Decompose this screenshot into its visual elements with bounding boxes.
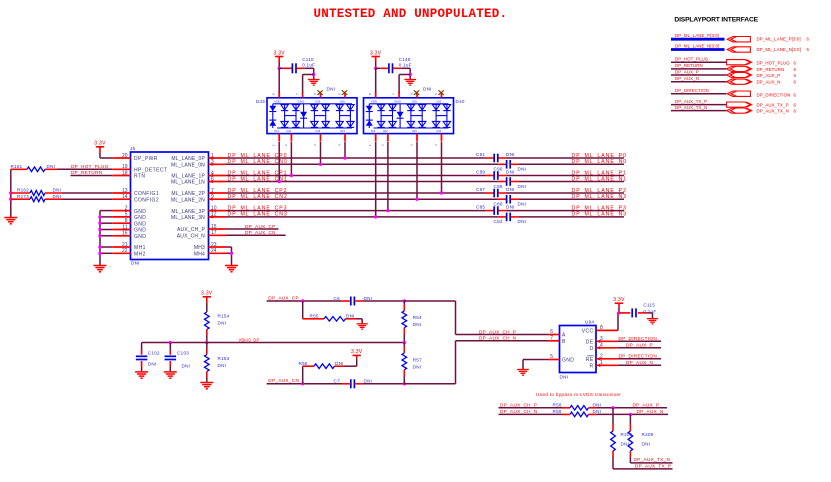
svg-text:IO5: IO5: [316, 99, 321, 103]
svg-text:B: B: [562, 339, 566, 345]
svg-text:D40: D40: [456, 99, 465, 104]
svg-text:DNI: DNI: [518, 167, 527, 172]
svg-text:DP_AUX_TX_P: DP_AUX_TX_P: [635, 463, 671, 468]
svg-text:DP_RETURN: DP_RETURN: [675, 63, 703, 68]
svg-text:DP_AUX_P: DP_AUX_P: [675, 69, 699, 74]
svg-text:C90: C90: [494, 167, 503, 172]
svg-text:DP_DIRECTION: DP_DIRECTION: [619, 354, 658, 359]
svg-text:IO5: IO5: [412, 99, 417, 103]
svg-text:DP_AUX_P: DP_AUX_P: [633, 403, 660, 408]
svg-text:DP_ML_LANE_N[3:0]: DP_ML_LANE_N[3:0]: [675, 44, 719, 49]
svg-text:VCC: VCC: [582, 329, 594, 335]
svg-text:DNI: DNI: [182, 363, 191, 368]
svg-text:VBIAS_DP: VBIAS_DP: [239, 338, 260, 343]
svg-text:C103: C103: [177, 350, 189, 355]
svg-text:R58: R58: [553, 403, 562, 408]
svg-text:20: 20: [122, 153, 128, 159]
svg-text:DNI: DNI: [218, 363, 227, 368]
svg-text:DP_ML_LANE_CP2: DP_ML_LANE_CP2: [228, 188, 288, 194]
svg-text:DNI: DNI: [506, 152, 515, 157]
svg-text:DP_AUX_N: DP_AUX_N: [637, 409, 664, 414]
svg-text:DP_AUX_CP: DP_AUX_CP: [245, 224, 276, 229]
svg-text:DP_ML_LANE_P[3:0]: DP_ML_LANE_P[3:0]: [675, 33, 719, 38]
svg-text:14: 14: [122, 194, 128, 200]
svg-text:DE: DE: [586, 340, 594, 346]
svg-text:AUX_CH_N: AUX_CH_N: [177, 234, 205, 240]
svg-text:DNI: DNI: [642, 441, 651, 446]
svg-text:DP_ML_LANE_P0: DP_ML_LANE_P0: [572, 153, 627, 159]
svg-text:MH4: MH4: [194, 252, 205, 258]
svg-text:U94: U94: [585, 320, 594, 325]
svg-text:R208: R208: [642, 432, 654, 437]
svg-text:DP_AUX_CN: DP_AUX_CN: [245, 230, 276, 235]
svg-text:R59: R59: [553, 409, 562, 414]
svg-text:GND: GND: [562, 358, 574, 364]
svg-text:GND: GND: [394, 99, 402, 103]
svg-text:D43: D43: [256, 99, 265, 104]
svg-text:DP_AUX_TX_P: DP_AUX_TX_P: [675, 99, 707, 104]
svg-text:R57: R57: [413, 358, 422, 363]
svg-text:5: 5: [125, 212, 128, 218]
svg-text:ML_LANE_3P: ML_LANE_3P: [171, 209, 205, 215]
svg-text:IO4: IO4: [340, 129, 345, 133]
svg-text:8: 8: [600, 325, 603, 331]
svg-text:DNI: DNI: [346, 313, 355, 318]
svg-text:R154: R154: [218, 314, 230, 319]
svg-text:18: 18: [122, 170, 128, 176]
svg-text:DNI: DNI: [518, 202, 527, 207]
svg-text:DNI: DNI: [423, 87, 432, 92]
svg-text:D: D: [589, 346, 593, 352]
svg-text:DNI: DNI: [518, 219, 527, 224]
svg-text:DP_ML_LANE_N2: DP_ML_LANE_N2: [572, 194, 628, 200]
svg-text:C7: C7: [334, 379, 341, 384]
svg-text:24: 24: [211, 248, 217, 254]
svg-text:GND: GND: [134, 221, 146, 227]
svg-text:DP_AUX_N: DP_AUX_N: [626, 360, 653, 365]
svg-text:ML_LANE_1N: ML_LANE_1N: [171, 180, 205, 186]
svg-text:DNI: DNI: [413, 322, 422, 327]
svg-text:DP_ML_LANE_P3: DP_ML_LANE_P3: [572, 205, 627, 211]
svg-text:0.1uF: 0.1uF: [302, 62, 315, 67]
svg-text:C82: C82: [494, 219, 503, 224]
svg-text:DNI: DNI: [506, 169, 515, 174]
svg-text:IO3: IO3: [316, 129, 321, 133]
svg-text:13: 13: [122, 188, 128, 194]
svg-text:DP_ML_LANE_P2: DP_ML_LANE_P2: [572, 188, 627, 194]
svg-text:VDD: VDD: [371, 99, 378, 103]
svg-text:R205: R205: [621, 432, 633, 437]
svg-text:IO2: IO2: [286, 129, 291, 133]
svg-text:DP_ML_LANE_P[3:0]: DP_ML_LANE_P[3:0]: [757, 37, 801, 42]
svg-text:C89: C89: [476, 169, 485, 174]
svg-text:DNI: DNI: [506, 204, 515, 209]
svg-text:6: 6: [550, 329, 553, 335]
svg-text:DP_HOT_PLUG: DP_HOT_PLUG: [71, 164, 109, 169]
svg-text:CONFIG2: CONFIG2: [134, 197, 159, 203]
svg-text:GND: GND: [298, 99, 306, 103]
svg-text:RTN: RTN: [134, 174, 145, 180]
svg-text:C102: C102: [148, 350, 160, 355]
svg-text:3: 3: [600, 336, 603, 342]
svg-text:5: 5: [550, 354, 553, 360]
svg-text:DP_PWR: DP_PWR: [134, 156, 158, 162]
svg-text:7: 7: [550, 335, 553, 341]
svg-text:DISPLAYPORT INTERFACE: DISPLAYPORT INTERFACE: [674, 16, 758, 23]
svg-text:DNI: DNI: [506, 187, 515, 192]
svg-text:AUX_CH_P: AUX_CH_P: [177, 227, 205, 233]
svg-text:17: 17: [211, 230, 217, 236]
svg-text:C91: C91: [476, 152, 485, 157]
svg-text:C115: C115: [643, 302, 655, 307]
svg-text:ML_LANE_3N: ML_LANE_3N: [171, 215, 205, 221]
svg-text:3.3V: 3.3V: [94, 141, 106, 147]
svg-text:2: 2: [125, 205, 128, 211]
svg-text:16: 16: [122, 231, 128, 237]
svg-text:VDD: VDD: [274, 99, 281, 103]
svg-text:R: R: [589, 364, 593, 370]
svg-text:3.3V: 3.3V: [351, 349, 363, 355]
svg-text:3.3V: 3.3V: [201, 291, 213, 297]
svg-text:IO6: IO6: [340, 99, 345, 103]
svg-text:2: 2: [600, 353, 603, 359]
svg-text:DNI: DNI: [327, 87, 336, 92]
svg-text:ML_LANE_0N: ML_LANE_0N: [171, 163, 205, 169]
svg-text:0.1uF: 0.1uF: [643, 309, 656, 314]
svg-text:C86: C86: [494, 202, 503, 207]
svg-text:8: 8: [125, 218, 128, 224]
svg-text:C87: C87: [476, 187, 485, 192]
svg-text:DNI: DNI: [621, 441, 630, 446]
svg-text:C85: C85: [476, 204, 485, 209]
svg-text:DP_AUX_P: DP_AUX_P: [757, 73, 781, 78]
svg-text:DP_HOT_PLUG: DP_HOT_PLUG: [757, 61, 791, 66]
svg-text:DNI: DNI: [560, 375, 569, 380]
svg-text:DP_ML_LANE_N3: DP_ML_LANE_N3: [572, 212, 628, 218]
svg-text:DP_DIRECTION: DP_DIRECTION: [675, 88, 709, 93]
svg-text:21: 21: [122, 242, 128, 248]
svg-text:DP_ML_LANE_N0: DP_ML_LANE_N0: [572, 159, 628, 165]
svg-text:DP_DIRECTION: DP_DIRECTION: [619, 336, 658, 341]
svg-text:DP_DIRECTION: DP_DIRECTION: [757, 92, 791, 97]
svg-text:DP_AUX_TX_N: DP_AUX_TX_N: [634, 457, 671, 462]
svg-text:DNI: DNI: [335, 361, 344, 366]
svg-text:DP_ML_LANE_N[3:0]: DP_ML_LANE_N[3:0]: [757, 47, 801, 52]
svg-text:23: 23: [211, 242, 217, 248]
svg-text:C88: C88: [494, 184, 503, 189]
svg-text:IO4: IO4: [437, 129, 442, 133]
svg-text:IO1: IO1: [371, 129, 376, 133]
svg-text:J5: J5: [130, 146, 136, 151]
svg-text:MH3: MH3: [194, 245, 205, 251]
svg-text:3.3V: 3.3V: [613, 297, 625, 303]
svg-text:DNI: DNI: [593, 409, 602, 414]
svg-text:R161: R161: [11, 164, 23, 169]
svg-text:DP_AUX_TX_N: DP_AUX_TX_N: [675, 105, 707, 110]
svg-text:11: 11: [122, 224, 127, 230]
svg-text:Used to bypass m-LVDS transcei: Used to bypass m-LVDS transceiver: [536, 392, 621, 397]
svg-text:C6: C6: [334, 296, 341, 301]
svg-text:R162: R162: [17, 188, 29, 193]
svg-text:A: A: [562, 333, 566, 339]
svg-text:DNI: DNI: [131, 261, 140, 266]
svg-text:DP_AUX_CH_P: DP_AUX_CH_P: [500, 403, 537, 408]
svg-text:3.3V: 3.3V: [273, 50, 285, 56]
svg-text:DNI: DNI: [413, 365, 422, 370]
svg-text:R56: R56: [299, 361, 308, 366]
svg-text:22: 22: [122, 248, 128, 254]
svg-text:DNI: DNI: [53, 188, 62, 193]
svg-text:DNI: DNI: [364, 379, 373, 384]
svg-text:DP_RETURN: DP_RETURN: [71, 170, 102, 175]
svg-text:DNI: DNI: [518, 184, 527, 189]
svg-text:DP_AUX_P: DP_AUX_P: [626, 343, 653, 348]
svg-text:DP_AUX_TX_P: DP_AUX_TX_P: [757, 103, 789, 108]
svg-text:DNI: DNI: [53, 194, 62, 199]
svg-text:GND: GND: [134, 209, 146, 215]
svg-text:R54: R54: [413, 315, 422, 320]
svg-text:DP_ML_LANE_CP3: DP_ML_LANE_CP3: [228, 205, 288, 211]
svg-text:IO1: IO1: [274, 129, 279, 133]
svg-text:DNI: DNI: [47, 164, 56, 169]
svg-text:RE: RE: [586, 357, 594, 363]
svg-text:1: 1: [600, 360, 603, 366]
svg-text:DP_AUX_CN: DP_AUX_CN: [268, 378, 299, 383]
svg-text:DNI: DNI: [218, 321, 227, 326]
svg-text:DP_ML_LANE_CN2: DP_ML_LANE_CN2: [228, 194, 288, 200]
svg-text:DP_RETURN: DP_RETURN: [757, 67, 785, 72]
svg-text:DP_ML_LANE_N1: DP_ML_LANE_N1: [572, 176, 628, 182]
svg-text:MH1: MH1: [134, 245, 146, 251]
svg-text:MH2: MH2: [134, 252, 146, 258]
svg-text:4: 4: [600, 342, 603, 348]
svg-text:DNI: DNI: [364, 296, 373, 301]
svg-text:C148: C148: [399, 57, 411, 62]
svg-text:R153: R153: [218, 356, 230, 361]
svg-text:DP_HOT_PLUG: DP_HOT_PLUG: [675, 57, 709, 62]
svg-text:IO3: IO3: [412, 129, 417, 133]
svg-text:CONFIG1: CONFIG1: [134, 191, 159, 197]
svg-text:0.1uF: 0.1uF: [399, 62, 412, 67]
svg-text:DP_ML_LANE_CN3: DP_ML_LANE_CN3: [228, 212, 288, 218]
svg-text:R173: R173: [17, 194, 29, 199]
svg-text:ML_LANE_2P: ML_LANE_2P: [171, 191, 205, 197]
svg-text:DP_AUX_TX_N: DP_AUX_TX_N: [757, 108, 789, 113]
svg-text:15: 15: [211, 224, 217, 230]
svg-text:DP_AUX_N: DP_AUX_N: [757, 79, 781, 84]
svg-text:ML_LANE_0P: ML_LANE_0P: [171, 156, 205, 162]
svg-text:DP_AUX_CH_P: DP_AUX_CH_P: [479, 329, 516, 334]
svg-text:ML_LANE_2N: ML_LANE_2N: [171, 197, 205, 203]
svg-text:DNI: DNI: [593, 403, 602, 408]
svg-text:DP_AUX_N: DP_AUX_N: [675, 76, 699, 81]
svg-text:19: 19: [122, 164, 128, 170]
svg-text:GND: GND: [134, 234, 146, 240]
svg-text:GND: GND: [134, 215, 146, 221]
svg-text:GND: GND: [134, 228, 146, 234]
svg-text:IO2: IO2: [383, 129, 388, 133]
svg-text:C110: C110: [302, 57, 314, 62]
svg-text:DP_AUX_CH_N: DP_AUX_CH_N: [479, 336, 516, 341]
svg-text:DP_AUX_CH_N: DP_AUX_CH_N: [500, 409, 537, 414]
svg-text:IO6: IO6: [437, 99, 442, 103]
svg-text:HP_DETECT: HP_DETECT: [134, 168, 167, 174]
svg-text:UNTESTED AND UNPOPULATED.: UNTESTED AND UNPOPULATED.: [314, 7, 508, 21]
svg-text:DP_AUX_CP: DP_AUX_CP: [268, 295, 299, 300]
svg-text:R55: R55: [310, 313, 319, 318]
svg-text:DNI: DNI: [148, 361, 157, 366]
svg-text:3.3V: 3.3V: [370, 50, 382, 56]
